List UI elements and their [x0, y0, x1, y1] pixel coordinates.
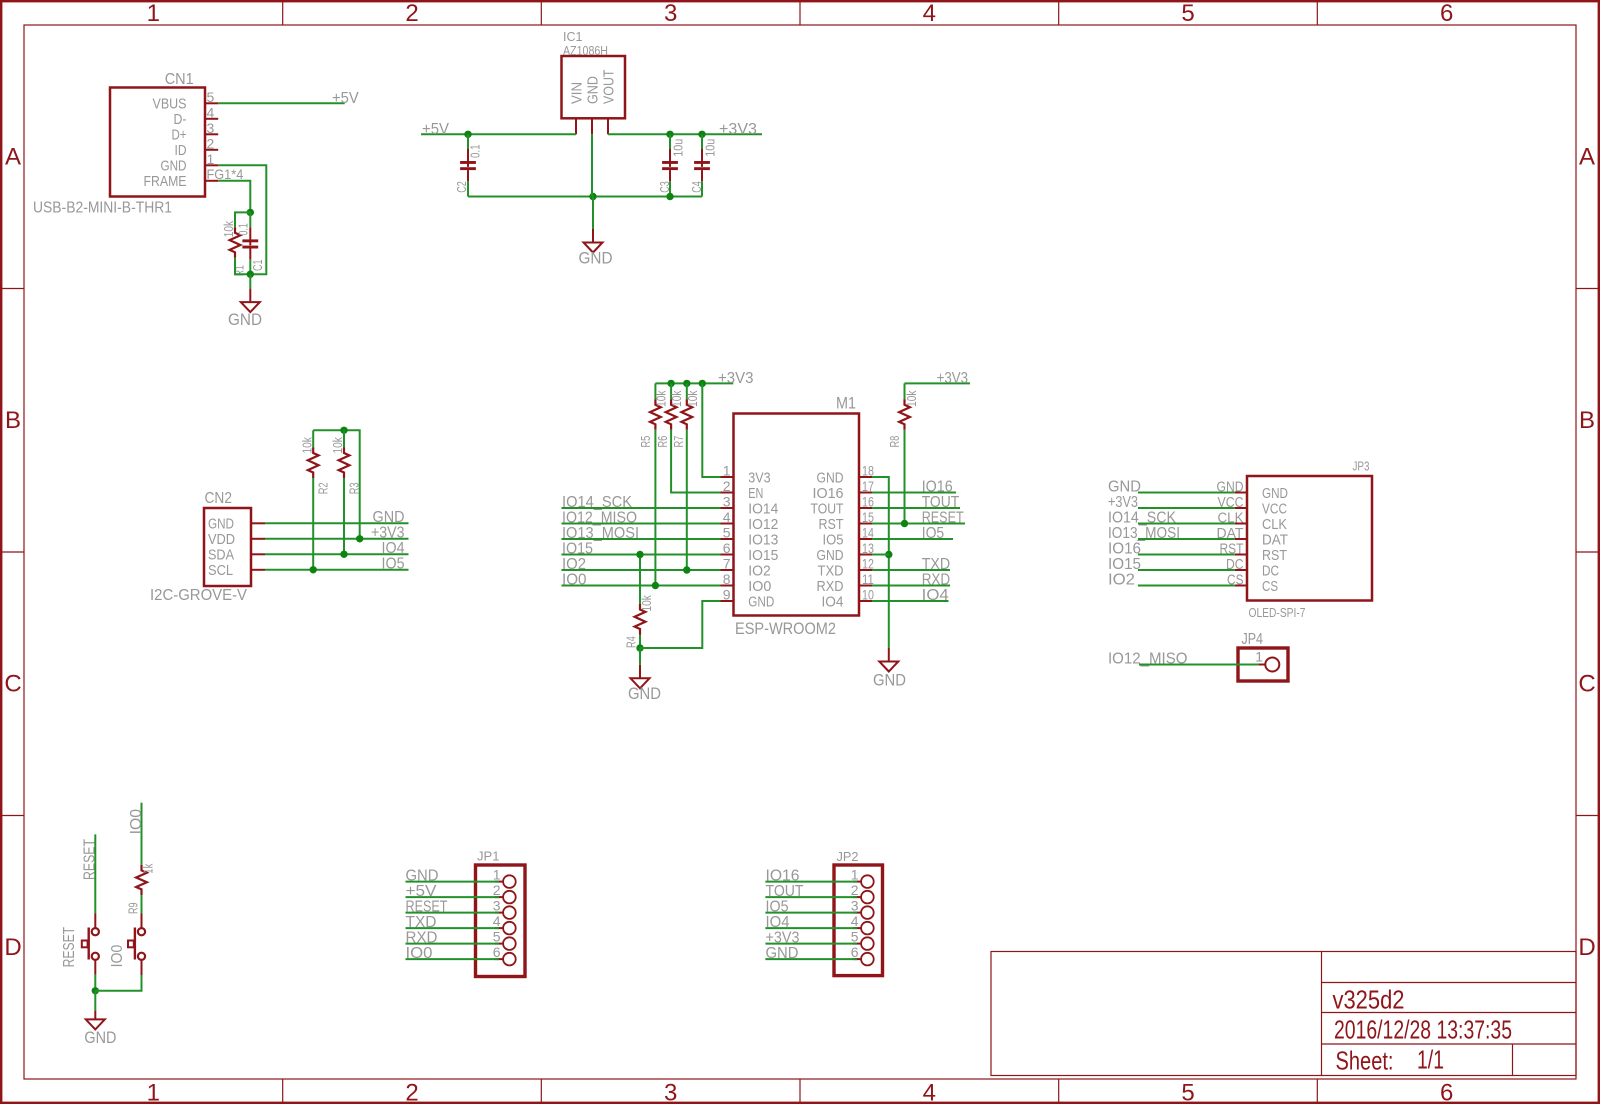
M1 left pin 9 GND	[721, 600, 734, 602]
svg-text:IO4: IO4	[922, 587, 949, 604]
svg-text:6: 6	[1440, 1080, 1453, 1104]
svg-text:7: 7	[723, 556, 731, 572]
svg-text:IO13_MOSI: IO13_MOSI	[1108, 525, 1180, 542]
JP1 pin 2	[495, 896, 503, 898]
svg-text:IO12: IO12	[748, 516, 778, 533]
svg-text:5: 5	[851, 929, 859, 945]
svg-text:2: 2	[207, 135, 215, 151]
wire net IO13_MOSI to JP3	[1138, 538, 1235, 540]
svg-text:JP4: JP4	[1242, 631, 1264, 648]
svg-text:1: 1	[1255, 649, 1263, 665]
resistor R3	[343, 430, 345, 447]
svg-text:IO15: IO15	[562, 540, 593, 557]
svg-text:R3: R3	[348, 482, 362, 494]
wire net IO4 to JP2	[765, 927, 857, 929]
wire net GND to JP3	[1138, 492, 1235, 494]
JP3 pin GND	[1235, 492, 1247, 494]
JP3 pin DC	[1235, 569, 1247, 571]
svg-text:TOUT: TOUT	[811, 500, 844, 517]
wire +3V3 to R8	[905, 382, 971, 384]
svg-text:AZ1086H: AZ1086H	[563, 44, 608, 58]
M1 left pin 8 IO0	[721, 585, 734, 587]
resistor R2	[312, 430, 314, 447]
svg-text:GND: GND	[817, 547, 844, 564]
wire net IO13_MOSI to M1	[562, 538, 721, 540]
svg-text:5: 5	[1181, 1080, 1194, 1104]
node junction R4/GND/pin9	[636, 644, 643, 651]
svg-text:GND: GND	[161, 158, 187, 175]
wire IO0 switch to R9	[141, 895, 143, 914]
M1 left pin 7 IO2	[721, 569, 734, 571]
capacitor C2	[467, 134, 469, 149]
svg-text:C4: C4	[690, 181, 704, 193]
wire net TXD from M1	[872, 569, 950, 571]
wire net IO16 to JP3	[1138, 554, 1235, 556]
node junction R7 top	[683, 380, 690, 387]
wire +5V rail to VIN	[421, 133, 576, 135]
svg-text:4: 4	[923, 0, 936, 27]
svg-text:C3: C3	[658, 181, 672, 193]
svg-text:IO5: IO5	[382, 556, 405, 573]
JP3 pin VCC	[1235, 507, 1247, 509]
resistor R1	[230, 227, 241, 257]
CN1 pin 3 D+	[205, 133, 218, 135]
node junction R5/IO0	[652, 582, 659, 589]
wire net IO5 from M1	[872, 538, 953, 540]
svg-text:1: 1	[851, 867, 859, 883]
svg-text:IC1: IC1	[563, 30, 583, 44]
wire R3 bottom to SDA	[343, 478, 345, 554]
svg-text:5: 5	[1181, 0, 1194, 27]
node junction +3V3/VDD	[356, 535, 363, 542]
wire net RXD to JP1	[406, 943, 500, 945]
svg-text:IO5: IO5	[922, 525, 945, 542]
wire net IO15 to M1	[562, 554, 721, 556]
M1 right pin 17 IO16	[859, 492, 872, 494]
wire CN1 FRAME	[218, 181, 250, 213]
svg-text:ID: ID	[175, 142, 187, 159]
ground GND below IC1	[592, 229, 594, 243]
M1 left pin 1 3V3	[721, 476, 734, 478]
wire net IO12_MISO to M1	[562, 523, 721, 525]
svg-text:2: 2	[851, 882, 859, 898]
svg-text:IO14_SCK: IO14_SCK	[1108, 509, 1177, 526]
wire net GND to JP1	[406, 881, 500, 883]
svg-text:VDD: VDD	[208, 531, 235, 548]
ground GND below CN1	[249, 289, 251, 303]
wire CN2 GND net	[265, 522, 409, 524]
wire to ground	[249, 274, 251, 288]
resistor R9 1k	[136, 865, 147, 895]
svg-text:+5V: +5V	[422, 121, 450, 138]
wire RESET switch to gnd node	[94, 975, 96, 991]
IC1 pin GND	[591, 118, 593, 134]
svg-text:3: 3	[207, 120, 215, 136]
JP2 pin 3	[853, 912, 861, 914]
svg-text:6: 6	[723, 540, 731, 556]
capacitor C3	[669, 134, 671, 149]
svg-text:2: 2	[493, 882, 501, 898]
svg-text:EN: EN	[748, 485, 763, 502]
wire net IO14_SCK to JP3	[1138, 523, 1235, 525]
svg-text:GND: GND	[208, 516, 234, 533]
wire net RESET from M1	[872, 523, 965, 525]
connector CN2 body	[204, 508, 251, 586]
svg-text:CN2: CN2	[205, 490, 233, 507]
svg-text:10k: 10k	[670, 390, 684, 407]
wire gnd node to IO0 switch	[95, 975, 141, 991]
wire to ground below R4	[639, 648, 641, 665]
svg-text:R7: R7	[672, 436, 686, 448]
M1 right pin 14 IO5	[859, 538, 872, 540]
svg-text:FRAME: FRAME	[144, 173, 187, 190]
svg-text:A: A	[5, 144, 21, 171]
svg-text:3V3: 3V3	[748, 469, 770, 486]
svg-text:1: 1	[147, 1080, 160, 1104]
svg-text:0.1: 0.1	[469, 144, 483, 158]
svg-text:3: 3	[664, 1080, 677, 1104]
wire net IO14_SCK to M1	[562, 507, 721, 509]
svg-text:A: A	[1579, 144, 1595, 171]
wire M1 pin13 GND	[872, 554, 889, 556]
wire VOUT to +3V3	[608, 133, 762, 135]
JP3 pin CLK	[1235, 523, 1247, 525]
CN1 pin 5 VBUS	[205, 102, 218, 104]
wire net IO4 from M1	[872, 600, 949, 602]
IC1 pin VIN	[575, 118, 577, 134]
svg-text:TXD: TXD	[922, 556, 951, 573]
CN1 pin FRAME FG1*4	[205, 180, 218, 182]
wire R4 bottom	[639, 635, 641, 649]
svg-text:IO15: IO15	[1108, 556, 1141, 573]
node junction C3 top	[666, 131, 673, 138]
wire R6 to EN pin2	[671, 430, 720, 493]
JP3 pin RST	[1235, 554, 1247, 556]
M1 left pin 6 IO15	[721, 554, 734, 556]
M1 left pin 2 EN	[721, 492, 734, 494]
svg-text:RXD: RXD	[817, 578, 844, 595]
svg-text:RXD: RXD	[922, 571, 951, 588]
svg-text:3: 3	[723, 494, 731, 510]
svg-text:D: D	[4, 934, 21, 961]
svg-text:+3V3: +3V3	[1108, 494, 1138, 511]
node junction C3 bottom	[666, 193, 673, 200]
svg-text:JP2: JP2	[837, 849, 859, 864]
JP1 pin 3	[495, 912, 503, 914]
CN2 pin GND	[251, 522, 265, 524]
svg-text:IO2: IO2	[562, 556, 586, 573]
svg-text:R6: R6	[656, 436, 670, 448]
svg-text:10k: 10k	[686, 390, 700, 407]
svg-text:IO4: IO4	[822, 593, 844, 610]
wire net IO0 to JP1	[406, 958, 500, 960]
svg-text:JP1: JP1	[477, 849, 500, 864]
svg-text:C: C	[1578, 671, 1595, 698]
switch RESET pin top	[94, 914, 96, 929]
svg-text:FG1*4: FG1*4	[207, 166, 244, 182]
wire R7 to IO2	[686, 430, 688, 570]
svg-text:10k: 10k	[222, 220, 236, 237]
node junction 3V3 wire top	[699, 380, 706, 387]
svg-text:R2: R2	[317, 482, 331, 494]
svg-text:GND: GND	[817, 469, 844, 486]
svg-text:ESP-WROOM2: ESP-WROOM2	[735, 620, 836, 638]
svg-text:IO12_MISO: IO12_MISO	[1108, 650, 1188, 667]
M1 right pin 12 TXD	[859, 569, 872, 571]
node junction R1/C1 bottom	[247, 271, 254, 278]
svg-text:IO0: IO0	[128, 809, 145, 835]
svg-text:IO16: IO16	[766, 867, 800, 884]
svg-text:R4: R4	[624, 636, 638, 648]
svg-text:GND: GND	[579, 248, 613, 267]
svg-text:I2C-GROVE-V: I2C-GROVE-V	[150, 587, 248, 604]
wire CN2 SCL net IO5	[265, 569, 409, 571]
wire net IO2 to JP3	[1138, 585, 1235, 587]
svg-text:+5V: +5V	[332, 90, 359, 107]
svg-text:4: 4	[207, 104, 215, 120]
switch RESET pin bottom	[94, 960, 96, 975]
wire net IO15 to JP3	[1138, 569, 1235, 571]
svg-text:1: 1	[493, 867, 501, 883]
svg-text:VCC: VCC	[1262, 500, 1287, 517]
svg-text:IO2: IO2	[1108, 571, 1135, 588]
wire net IO2 to M1	[562, 569, 721, 571]
resistor R6	[670, 383, 672, 399]
M1 left pin 5 IO13	[721, 538, 734, 540]
svg-text:GND: GND	[1108, 478, 1141, 495]
svg-text:R5: R5	[639, 436, 653, 448]
svg-text:+5V: +5V	[406, 883, 438, 900]
svg-text:RST: RST	[819, 516, 844, 533]
svg-text:3: 3	[851, 898, 859, 914]
svg-text:5: 5	[207, 89, 215, 105]
svg-text:IO4: IO4	[766, 914, 790, 931]
wire R8 to RESET	[904, 430, 906, 524]
CN2 pin VDD	[251, 538, 265, 540]
wire net +3V3 to JP2	[765, 943, 857, 945]
wire net IO16 to JP2	[765, 881, 857, 883]
svg-text:GND: GND	[406, 867, 439, 884]
svg-text:2016/12/28 13:37:35: 2016/12/28 13:37:35	[1334, 1015, 1512, 1045]
resistor R8 pullup	[904, 383, 906, 399]
wire VBUS to +5V	[218, 102, 345, 104]
node junction C2 top	[464, 131, 471, 138]
svg-text:C2: C2	[455, 181, 469, 193]
svg-text:6: 6	[493, 944, 501, 960]
node junction pin13/GND rail	[885, 551, 892, 558]
svg-text:CN1: CN1	[165, 71, 194, 88]
svg-text:10k: 10k	[331, 437, 345, 454]
capacitor C1	[249, 212, 251, 227]
svg-text:IO5: IO5	[823, 531, 844, 548]
svg-text:VOUT: VOUT	[600, 70, 617, 105]
svg-text:IO2: IO2	[748, 562, 771, 579]
svg-text:10k: 10k	[905, 390, 919, 407]
node junction R7/IO2	[683, 566, 690, 573]
svg-text:SCL: SCL	[208, 562, 233, 579]
node junction R3/SDA	[340, 551, 347, 558]
JP2 pin 6	[853, 958, 861, 960]
M1 right pin 15 RST	[859, 523, 872, 525]
svg-text:JP3: JP3	[1353, 460, 1370, 474]
svg-text:v325d2: v325d2	[1333, 985, 1405, 1015]
wire IC1 GND down	[591, 134, 593, 196]
capacitor C4	[701, 134, 703, 149]
svg-text:6: 6	[851, 944, 859, 960]
svg-text:GND: GND	[628, 684, 661, 703]
svg-text:D: D	[1578, 934, 1595, 961]
svg-text:9: 9	[723, 587, 731, 603]
pushbutton switch RESET	[92, 928, 99, 935]
svg-text:TXD: TXD	[406, 914, 437, 931]
CN1 pin 4 D-	[205, 118, 218, 120]
svg-text:B: B	[1579, 407, 1595, 434]
svg-text:RXD: RXD	[406, 929, 438, 946]
svg-text:R8: R8	[888, 436, 902, 448]
svg-text:RESET: RESET	[922, 509, 964, 526]
M1 right pin 16 TOUT	[859, 507, 872, 509]
JP3 pin DAT	[1235, 538, 1247, 540]
svg-text:8: 8	[723, 571, 731, 587]
svg-text:CS: CS	[1262, 578, 1278, 595]
svg-text:GND: GND	[748, 593, 774, 610]
svg-text:1: 1	[207, 151, 215, 167]
frame column tick lines	[282, 1, 284, 25]
title block box	[991, 952, 1576, 1076]
ground GND below R4	[639, 665, 641, 679]
pushbutton switch IO0	[138, 928, 145, 935]
svg-text:6: 6	[1440, 0, 1453, 27]
wire net IO16 from M1	[872, 492, 956, 494]
svg-text:D+: D+	[172, 127, 187, 144]
svg-text:USB-B2-MINI-B-THR1: USB-B2-MINI-B-THR1	[33, 200, 172, 217]
svg-text:IO14_SCK: IO14_SCK	[562, 494, 633, 511]
node junction C4 top	[698, 131, 705, 138]
svg-text:+3V3: +3V3	[719, 121, 757, 138]
wire R5 to IO0	[654, 430, 656, 586]
ground GND below switches	[94, 1011, 96, 1020]
wire pullup rail above CN2	[313, 430, 360, 539]
svg-text:GND: GND	[873, 671, 906, 690]
svg-text:10k: 10k	[640, 595, 654, 612]
wire net TOUT from M1	[872, 507, 960, 509]
M1 right pin 10 IO4	[859, 600, 872, 602]
svg-text:VIN: VIN	[568, 82, 585, 104]
wire net RESET to JP1	[406, 912, 500, 914]
JP2 pin 4	[853, 927, 861, 929]
svg-text:1: 1	[723, 463, 731, 479]
M1 right pin 11 RXD	[859, 585, 872, 587]
svg-text:IO5: IO5	[766, 898, 789, 915]
wire IO0 net to R9	[141, 803, 143, 865]
node junction R3 top	[340, 427, 347, 434]
svg-text:CLK: CLK	[1262, 516, 1287, 533]
svg-text:1/1: 1/1	[1417, 1045, 1444, 1075]
svg-text:IO0: IO0	[748, 578, 771, 595]
node junction IC1 GND	[589, 193, 596, 200]
switch IO0 pin bottom	[141, 960, 143, 975]
JP1 pin 4	[495, 927, 503, 929]
svg-text:GND: GND	[1262, 485, 1288, 502]
svg-text:+3V3: +3V3	[937, 370, 969, 387]
svg-text:DAT: DAT	[1262, 531, 1288, 548]
svg-text:GND: GND	[584, 76, 601, 104]
svg-text:SDA: SDA	[208, 547, 234, 564]
svg-text:IO15: IO15	[748, 547, 778, 564]
wire ground rail under IC1	[468, 196, 702, 198]
svg-text:3: 3	[664, 0, 677, 27]
wire to R1 top	[235, 212, 250, 227]
svg-text:TOUT: TOUT	[766, 883, 804, 900]
svg-text:Sheet:: Sheet:	[1336, 1046, 1394, 1076]
node junction R8/RESET	[901, 520, 908, 527]
svg-text:RESET: RESET	[61, 926, 78, 967]
wire net IO12_MISO to JP4	[1139, 664, 1259, 666]
node junction R6 top	[667, 380, 674, 387]
wire RESET net down to switch	[94, 834, 96, 913]
svg-text:GND: GND	[84, 1028, 116, 1047]
svg-text:4: 4	[923, 1080, 936, 1104]
svg-text:IO4: IO4	[382, 540, 405, 557]
wire net +3V3 to JP3	[1138, 507, 1235, 509]
svg-text:IO14: IO14	[748, 500, 778, 517]
JP1 pin 5	[495, 943, 503, 945]
M1 left pin 4 IO12	[721, 523, 734, 525]
svg-text:IO13: IO13	[748, 531, 778, 548]
resistor R7	[686, 383, 688, 399]
wire R2 bottom to SCL	[312, 478, 314, 570]
JP3 pin CS	[1235, 585, 1247, 587]
CN1 pin 2 ID	[205, 149, 218, 151]
wire M1 pin18 GND	[872, 477, 889, 648]
svg-text:IO0: IO0	[562, 571, 587, 588]
connector JP3 body	[1247, 476, 1372, 601]
switch IO0 pin top	[141, 914, 143, 929]
svg-text:TOUT: TOUT	[922, 494, 960, 511]
svg-text:+3V3: +3V3	[371, 525, 405, 542]
svg-text:1k: 1k	[142, 863, 156, 874]
svg-text:4: 4	[493, 913, 501, 929]
wire CN2 SDA net IO4	[265, 553, 409, 555]
svg-text:M1: M1	[836, 394, 856, 413]
connector JP1 body	[476, 865, 526, 977]
regulator IC1 AZ1086H body	[562, 56, 626, 118]
wire net GND to JP2	[765, 958, 857, 960]
svg-text:10k: 10k	[300, 437, 314, 454]
svg-text:VBUS: VBUS	[153, 96, 187, 113]
svg-text:D-: D-	[174, 111, 187, 128]
svg-text:GND: GND	[228, 310, 262, 329]
CN2 pin SDA	[251, 553, 265, 555]
wire +3V3 to pin1	[702, 383, 720, 477]
svg-text:IO13_MOSI: IO13_MOSI	[562, 525, 639, 542]
svg-text:4: 4	[723, 509, 731, 525]
wire pin9 GND to R4 node	[640, 601, 721, 648]
JP4 pin 1	[1256, 664, 1265, 666]
svg-text:5: 5	[723, 525, 731, 541]
wire C1 bottom	[249, 260, 251, 275]
connector JP4 body	[1238, 648, 1288, 681]
svg-text:2: 2	[405, 0, 418, 27]
svg-text:10u: 10u	[704, 139, 718, 157]
svg-text:IO0: IO0	[406, 945, 433, 962]
wire net TXD to JP1	[406, 927, 500, 929]
wire R1 bottom	[235, 258, 250, 274]
wire to ground below switches	[94, 991, 96, 1011]
wire net RXD from M1	[872, 585, 950, 587]
resistor R4 pulldown	[639, 555, 641, 605]
svg-text:IO16: IO16	[922, 478, 953, 495]
